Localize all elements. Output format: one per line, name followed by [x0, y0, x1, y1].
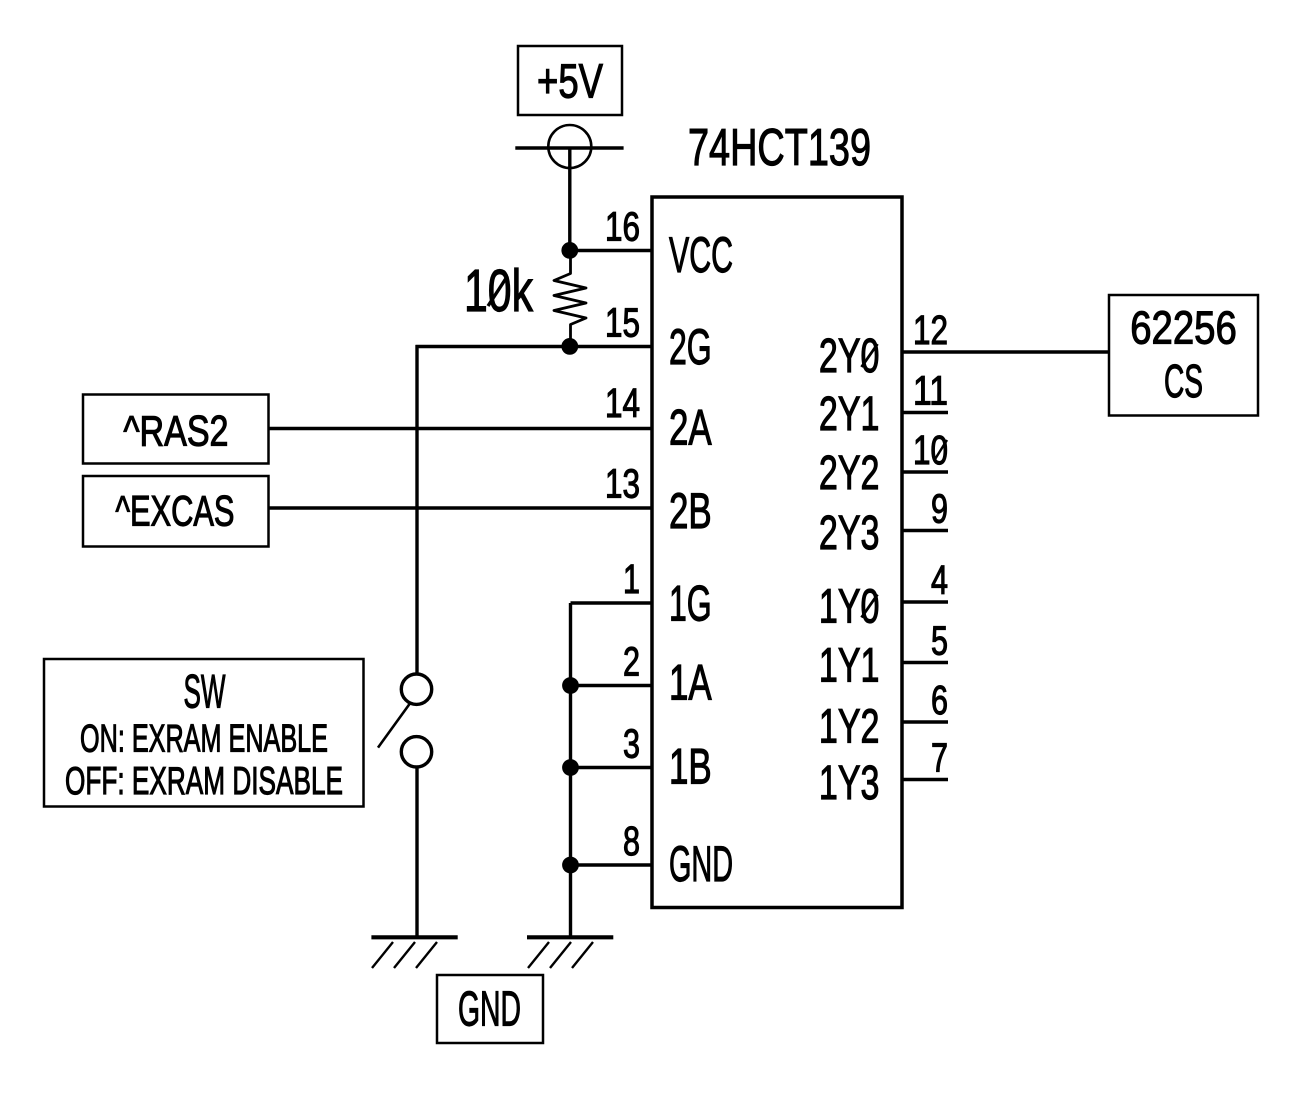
- svg-text:SW: SW: [184, 665, 226, 718]
- node junction pin15: [561, 338, 578, 355]
- wire pin 11 stub: [902, 411, 948, 414]
- svg-text:1Y2: 1Y2: [819, 701, 880, 754]
- node junction pin 3: [562, 759, 579, 776]
- box SW label: [44, 659, 364, 807]
- IC U1 74HCT139: [652, 119, 902, 908]
- wire pin 5 stub: [902, 661, 948, 664]
- svg-text:1G: 1G: [669, 576, 712, 632]
- wire pin 8 GND: [571, 863, 653, 866]
- svg-text:1Y3: 1Y3: [819, 757, 880, 810]
- switch SW: [378, 674, 432, 767]
- svg-text:11: 11: [913, 368, 948, 414]
- wire switch to ground: [415, 767, 418, 938]
- box ^EXCAS: [83, 476, 269, 547]
- svg-text:8: 8: [623, 818, 640, 864]
- svg-text:2Y2: 2Y2: [819, 447, 880, 500]
- svg-text:16: 16: [605, 204, 640, 250]
- svg-text:10: 10: [913, 427, 948, 473]
- box GND label: [437, 975, 543, 1043]
- wire bus pins 1-2-3-8: [569, 603, 572, 938]
- box ^RAS2: [83, 395, 269, 464]
- wire pin 1 1G: [571, 601, 653, 604]
- wire pin 7 stub: [902, 778, 948, 781]
- slash of zero in 10k: [488, 276, 508, 306]
- node junction pin 2: [562, 677, 579, 694]
- svg-text:3: 3: [623, 721, 640, 767]
- resistor R 10k: [464, 251, 586, 347]
- ground right: [527, 937, 613, 968]
- svg-text:1B: 1B: [669, 739, 712, 795]
- wire pin 9 stub: [902, 529, 948, 532]
- svg-text:15: 15: [605, 300, 640, 346]
- svg-text:GND: GND: [669, 836, 733, 892]
- svg-text:7: 7: [931, 735, 948, 781]
- wire pin 6 stub: [902, 720, 948, 723]
- svg-text:OFF: EXRAM DISABLE: OFF: EXRAM DISABLE: [65, 760, 343, 803]
- svg-text:+5V: +5V: [537, 55, 603, 108]
- slash of zero in 2Y0: [862, 344, 878, 367]
- svg-text:13: 13: [605, 461, 640, 507]
- slash of zero in pin 10: [935, 440, 948, 460]
- svg-text:5: 5: [931, 618, 948, 664]
- node junction pin 8: [562, 857, 579, 874]
- svg-text:VCC: VCC: [669, 227, 733, 283]
- svg-text:ON: EXRAM ENABLE: ON: EXRAM ENABLE: [80, 718, 328, 761]
- svg-text:CS: CS: [1164, 355, 1203, 407]
- wire pin 12 to 62256: [902, 350, 1109, 353]
- slash of zero in 1Y0: [862, 595, 878, 618]
- svg-text:74HCT139: 74HCT139: [688, 119, 871, 177]
- svg-text:^RAS2: ^RAS2: [124, 408, 229, 456]
- svg-text:^EXCAS: ^EXCAS: [116, 488, 235, 536]
- svg-text:GND: GND: [458, 983, 521, 1037]
- wire pin 3 1B: [571, 766, 653, 769]
- wire pin 4 stub: [902, 600, 948, 603]
- wire pin 10 stub: [902, 470, 948, 473]
- wire pin15 2G: [416, 345, 653, 348]
- power symbol circle: [515, 125, 623, 168]
- svg-text:62256: 62256: [1130, 302, 1237, 354]
- svg-text:2B: 2B: [669, 483, 712, 539]
- svg-text:2G: 2G: [669, 319, 712, 375]
- wire ^RAS2 to pin 14 2A: [269, 427, 653, 430]
- wire vertical to switch: [415, 345, 418, 675]
- wire pin 2 1A: [571, 684, 653, 687]
- wire pin16 VCC: [570, 249, 652, 252]
- svg-text:9: 9: [931, 486, 948, 532]
- node junction pin16: [561, 242, 578, 259]
- svg-text:12: 12: [913, 307, 948, 353]
- svg-text:1Y1: 1Y1: [819, 639, 880, 692]
- svg-text:2Y3: 2Y3: [819, 507, 880, 560]
- svg-text:1: 1: [623, 556, 640, 602]
- svg-text:2A: 2A: [669, 400, 712, 456]
- ground left: [371, 937, 457, 968]
- wire +5V to node: [568, 148, 571, 252]
- box 62256 CS: [1109, 295, 1258, 416]
- svg-text:1A: 1A: [669, 655, 712, 711]
- svg-text:6: 6: [931, 677, 948, 723]
- power box +5V: [518, 46, 622, 115]
- svg-text:2: 2: [623, 639, 640, 685]
- wire ^EXCAS to pin 13 2B: [269, 506, 653, 509]
- svg-text:4: 4: [931, 557, 948, 603]
- svg-text:14: 14: [605, 380, 640, 426]
- svg-text:2Y1: 2Y1: [819, 388, 880, 441]
